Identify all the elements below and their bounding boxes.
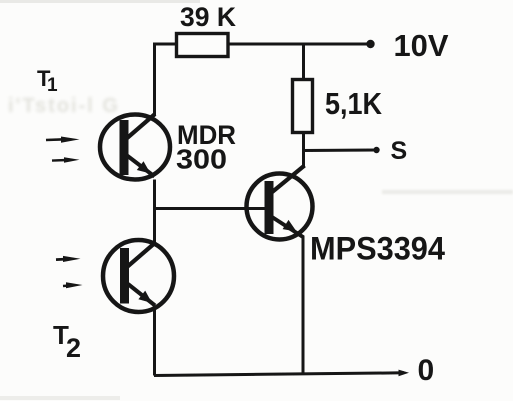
wire T1 emitter to T2 collector xyxy=(153,180,156,243)
light arrow 2 into T2 xyxy=(63,282,83,288)
phototransistor T1 emitter arrowhead xyxy=(137,161,151,173)
phototransistor T2 emitter stroke xyxy=(128,284,155,306)
wire 0 rail bottom xyxy=(154,373,404,376)
phototransistor T1 collector stroke xyxy=(126,114,155,139)
light arrow 2 into T1 xyxy=(52,157,80,163)
wire resistor 5,1K to node S and collector of Q3 xyxy=(302,133,305,169)
phototransistor T1 emitter stroke xyxy=(127,156,155,177)
wire node S branch xyxy=(304,149,377,153)
light arrow 1 into T2 xyxy=(56,256,81,262)
terminal dot 10V xyxy=(366,40,374,48)
transistor Q3 MPS3394 circle xyxy=(247,174,313,240)
svg-text:10V: 10V xyxy=(394,28,449,63)
phototransistor T2 emitter arrowhead xyxy=(138,291,152,303)
phototransistor T2 base bar xyxy=(120,248,129,304)
svg-text:39 K: 39 K xyxy=(180,2,236,32)
transistor Q3 emitter arrowhead xyxy=(283,220,297,232)
wire Q3 emitter down to 0 rail xyxy=(302,236,305,374)
wire 10V rail down to resistor 5,1K xyxy=(302,44,305,80)
transistor Q3 base bar xyxy=(265,181,274,234)
svg-text:1: 1 xyxy=(47,75,58,96)
wire base of Q3 xyxy=(155,207,266,210)
transistor Q3 collector stroke xyxy=(271,166,305,194)
svg-text:2: 2 xyxy=(66,333,81,363)
light arrow 1 into T1 xyxy=(46,137,80,143)
svg-text:300: 300 xyxy=(176,144,227,175)
svg-text:5,1K: 5,1K xyxy=(325,86,383,121)
phototransistor T2 collector stroke xyxy=(127,242,156,267)
wire resistor R1 right to 10V terminal xyxy=(228,43,371,46)
svg-text:0: 0 xyxy=(418,354,435,387)
wire T2 emitter down to 0 rail xyxy=(153,307,156,376)
terminal dot 0 xyxy=(399,370,410,377)
phototransistor T2 circle xyxy=(103,240,174,312)
transistor Q3 emitter stroke xyxy=(272,217,303,237)
phototransistor T1 base bar xyxy=(120,120,129,175)
svg-text:MPS3394: MPS3394 xyxy=(310,231,445,267)
svg-text:i'Tstoi-l G: i'Tstoi-l G xyxy=(8,95,120,117)
svg-text:S: S xyxy=(391,137,408,165)
resistor R2 5,1K body xyxy=(293,80,313,133)
phototransistor T1 circle xyxy=(100,115,170,180)
resistor R1 39K body xyxy=(177,34,229,57)
terminal dot S xyxy=(373,147,379,153)
wire top-left corner to resistor R1 xyxy=(155,44,177,116)
